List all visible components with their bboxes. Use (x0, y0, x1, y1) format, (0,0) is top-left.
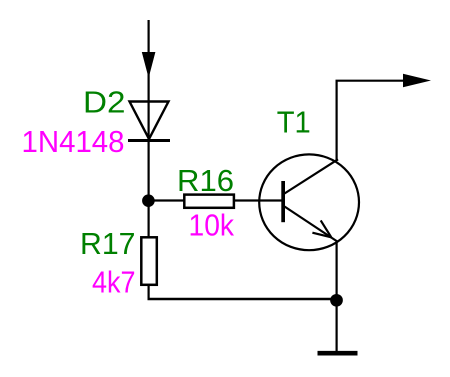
svg-text:T1: T1 (277, 105, 311, 139)
svg-text:10k: 10k (189, 208, 235, 242)
svg-text:R17: R17 (80, 227, 136, 261)
svg-text:R16: R16 (177, 164, 234, 198)
svg-text:1N4148: 1N4148 (22, 125, 125, 159)
svg-text:4k7: 4k7 (92, 265, 136, 299)
svg-text:D2: D2 (83, 86, 126, 120)
